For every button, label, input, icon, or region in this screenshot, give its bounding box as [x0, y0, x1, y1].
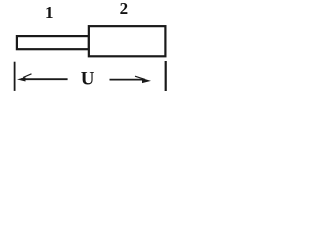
- tube section 2 (large rectangle): [89, 26, 166, 56]
- label 2: [120, 0, 129, 18]
- dimension extension line right: [165, 61, 167, 91]
- svg-text:2: 2: [120, 0, 129, 18]
- dimension label U: [81, 68, 95, 89]
- right arrow of dimension: [110, 76, 152, 83]
- label 1: [45, 3, 54, 22]
- left arrow of dimension: [17, 74, 68, 82]
- svg-text:U: U: [81, 68, 95, 89]
- tube section 1 (thin rectangle): [17, 36, 89, 49]
- dimension extension line left: [14, 62, 16, 91]
- svg-text:1: 1: [45, 3, 54, 22]
